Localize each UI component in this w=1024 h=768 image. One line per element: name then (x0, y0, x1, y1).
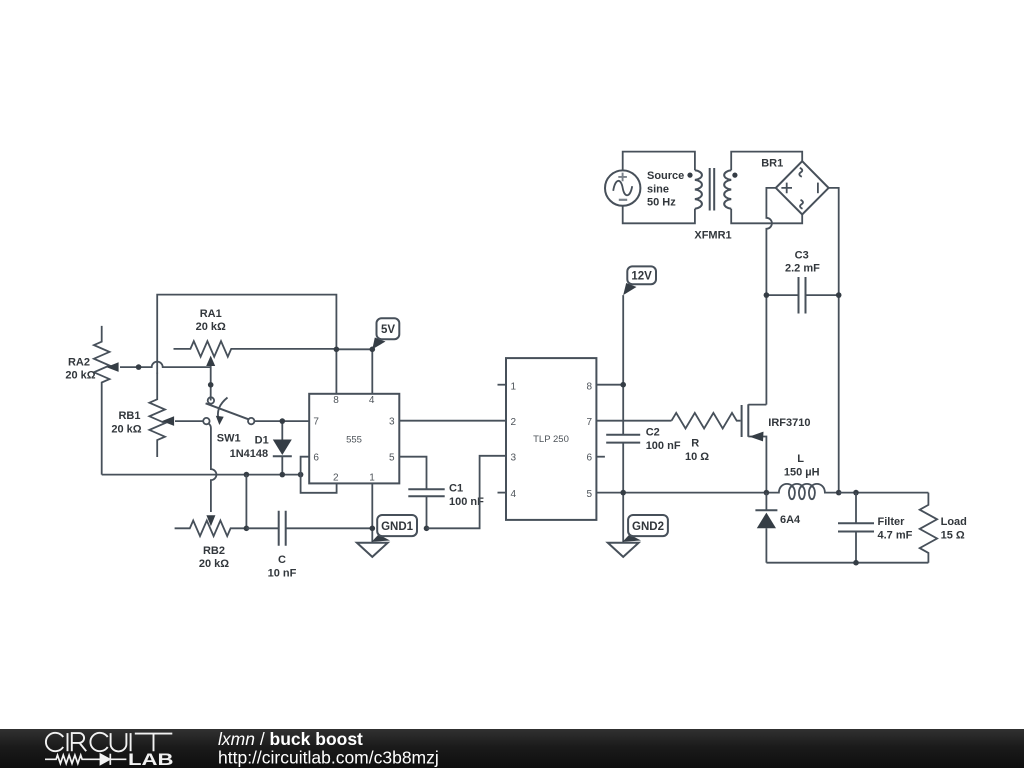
svg-text:C2: C2 (646, 427, 660, 439)
svg-text:5: 5 (389, 453, 395, 464)
voltage source V1 sine (605, 170, 684, 208)
pin 4 stub U2 (498, 492, 507, 494)
svg-text:1: 1 (511, 381, 517, 392)
node L dots (764, 490, 770, 496)
node C3 dots (764, 292, 770, 298)
svg-text:5: 5 (586, 489, 592, 500)
svg-text:SW1: SW1 (217, 433, 241, 445)
svg-text:15 Ω: 15 Ω (941, 529, 965, 541)
capacitor C 10nF (246, 511, 372, 580)
node filter top dot (853, 490, 859, 496)
svg-text:Load: Load (941, 516, 967, 528)
wire 555 pin1 to ground (371, 483, 373, 542)
node 5V anchor dot (370, 347, 376, 353)
wire 555 pin3 to TLP pin2 (399, 420, 506, 422)
wire bridge minus output (829, 188, 839, 493)
wire source sine bottom (623, 206, 695, 224)
svg-text:1N4148: 1N4148 (230, 448, 269, 460)
wire 12V vertical (622, 295, 624, 435)
flag 5V (372, 318, 399, 349)
wire SW1 common to 555 pin7 (254, 420, 309, 422)
svg-text:100 nF: 100 nF (646, 440, 681, 452)
capacitor C3 2.2mF (766, 249, 838, 313)
node pin8 branch dot (334, 347, 340, 353)
node pin8 dot (620, 382, 626, 388)
inductor L 150uH (766, 453, 838, 499)
diode D1 1N4148 (230, 421, 292, 475)
svg-text:C: C (278, 554, 286, 566)
switch SW1 (203, 397, 254, 444)
wire bridge plus output, hop over bottom rail (766, 188, 775, 405)
svg-text:2.2 mF: 2.2 mF (785, 263, 820, 275)
wire C1 bottom loop to TLP pin3 (427, 456, 507, 529)
svg-text:6A4: 6A4 (780, 514, 801, 526)
IC U1 555 timer (309, 394, 399, 484)
node filter bottom dot (853, 560, 859, 566)
wire 555 pin6-pin2 loop (301, 457, 337, 493)
svg-text:8: 8 (586, 381, 592, 392)
node RB2 right dot (244, 526, 250, 532)
pin 6 stub U2 (596, 456, 605, 458)
capacitor C2 100nF (606, 427, 681, 543)
svg-text:lxmn / buck boost: lxmn / buck boost (218, 729, 363, 749)
svg-text:7: 7 (586, 417, 592, 428)
svg-text:2: 2 (511, 417, 517, 428)
svg-text:GND2: GND2 (632, 521, 664, 533)
ground GND1 symbol (357, 543, 388, 557)
pin 1 stub U2 (498, 384, 507, 386)
wire top rail RA1 loop (157, 295, 336, 394)
svg-text:10 Ω: 10 Ω (685, 451, 709, 463)
svg-text:L: L (797, 453, 804, 465)
svg-text:IRF3710: IRF3710 (768, 417, 810, 429)
svg-text:4.7 mF: 4.7 mF (878, 529, 913, 541)
svg-text:7: 7 (313, 417, 319, 428)
diode D2 6A4 (755, 493, 801, 563)
wire bottom return (766, 562, 928, 564)
resistor R 10 (672, 413, 741, 463)
resistor Load 15 (920, 493, 967, 563)
svg-text:4: 4 (511, 489, 517, 500)
svg-text:3: 3 (389, 417, 395, 428)
wire output node to load (839, 492, 929, 494)
svg-text:1: 1 (369, 473, 375, 484)
rectifier BR1 (761, 158, 828, 215)
svg-text:C3: C3 (795, 249, 809, 261)
svg-text:20 kΩ: 20 kΩ (196, 321, 226, 333)
wire source sine top (623, 152, 695, 171)
wire RA2 wiper to RA1 wiper vertical, hop over x157 (139, 362, 211, 367)
node rail dots (244, 472, 250, 478)
flag 12V (623, 266, 656, 295)
svg-text:6: 6 (313, 453, 319, 464)
node D1 top dot (280, 418, 286, 424)
node pin5 dot (620, 490, 626, 496)
capacitor C1 100nF (408, 483, 484, 529)
svg-text:12V: 12V (631, 271, 652, 283)
svg-text:R: R (691, 438, 699, 450)
svg-text:RB1: RB1 (118, 410, 140, 422)
svg-text:4: 4 (369, 395, 375, 406)
wire TLP pin5 long rail to mosfet node (596, 492, 766, 494)
logo resistor-diode symbol (45, 754, 126, 765)
node RA1 wiper dot (208, 382, 214, 388)
flag GND1 (372, 515, 417, 542)
svg-text:20 kΩ: 20 kΩ (199, 558, 229, 570)
wire secondary top to bridge (731, 152, 802, 171)
wire TLP pin7 to R (596, 420, 671, 422)
svg-text:BR1: BR1 (761, 158, 783, 170)
IC U2 TLP 250 optocoupler (506, 358, 596, 520)
wire 5V branch (336, 349, 372, 394)
svg-text:RA2: RA2 (68, 356, 90, 368)
wire SW1 left contact down to RB2 wiper, hop over rail (209, 424, 217, 512)
svg-text:3: 3 (511, 452, 517, 463)
svg-text:2: 2 (333, 473, 339, 484)
svg-text:5V: 5V (381, 324, 395, 336)
wire 555 pin5 to C1 (399, 457, 426, 489)
FOOTER (0, 729, 1024, 768)
svg-text:555: 555 (346, 434, 362, 445)
svg-text:6: 6 (586, 452, 592, 463)
svg-text:RB2: RB2 (203, 545, 225, 557)
svg-text:20 kΩ: 20 kΩ (111, 423, 141, 435)
svg-text:RA1: RA1 (200, 308, 222, 320)
potentiometer RB1 (111, 373, 203, 457)
svg-text:http://circuitlab.com/c3b8mzj: http://circuitlab.com/c3b8mzj (218, 748, 439, 768)
svg-text:LAB: LAB (128, 750, 174, 768)
svg-text:Filter: Filter (878, 516, 906, 528)
node C1 bottom dot (424, 526, 430, 532)
svg-text:D1: D1 (255, 434, 269, 446)
capacitor Filter 4.7mF (838, 493, 913, 563)
svg-text:C1: C1 (449, 483, 463, 495)
svg-text:GND1: GND1 (381, 521, 414, 533)
potentiometer RB2 (175, 515, 247, 570)
wire secondary bottom to bridge (731, 209, 802, 224)
node RA2 wiper dot (136, 364, 142, 370)
svg-text:XFMR1: XFMR1 (694, 230, 731, 242)
potentiometer RA1 (174, 308, 337, 401)
wire ground-side rail RA2 bottom to 555 loop (102, 474, 301, 476)
logo CIRCUIT letters (46, 733, 172, 752)
svg-text:50 Hz: 50 Hz (647, 197, 676, 209)
wire TLP pin8 to 12V line (596, 384, 623, 386)
svg-text:150 µH: 150 µH (784, 466, 820, 478)
potentiometer RA2 (65, 326, 138, 475)
svg-text:8: 8 (333, 395, 339, 406)
transistor Q1 IRF3710 (742, 404, 811, 492)
svg-text:TLP 250: TLP 250 (533, 434, 569, 445)
svg-text:10 nF: 10 nF (268, 567, 297, 579)
svg-text:20 kΩ: 20 kΩ (65, 370, 95, 382)
svg-text:Source: Source (647, 170, 684, 182)
svg-text:sine: sine (647, 183, 669, 195)
flag GND2 (623, 515, 668, 542)
transformer XFMR1 (687, 168, 737, 242)
node GND1 dot (370, 526, 376, 532)
wire RB2 node up to rail (245, 475, 247, 529)
ground GND2 symbol (608, 543, 639, 557)
